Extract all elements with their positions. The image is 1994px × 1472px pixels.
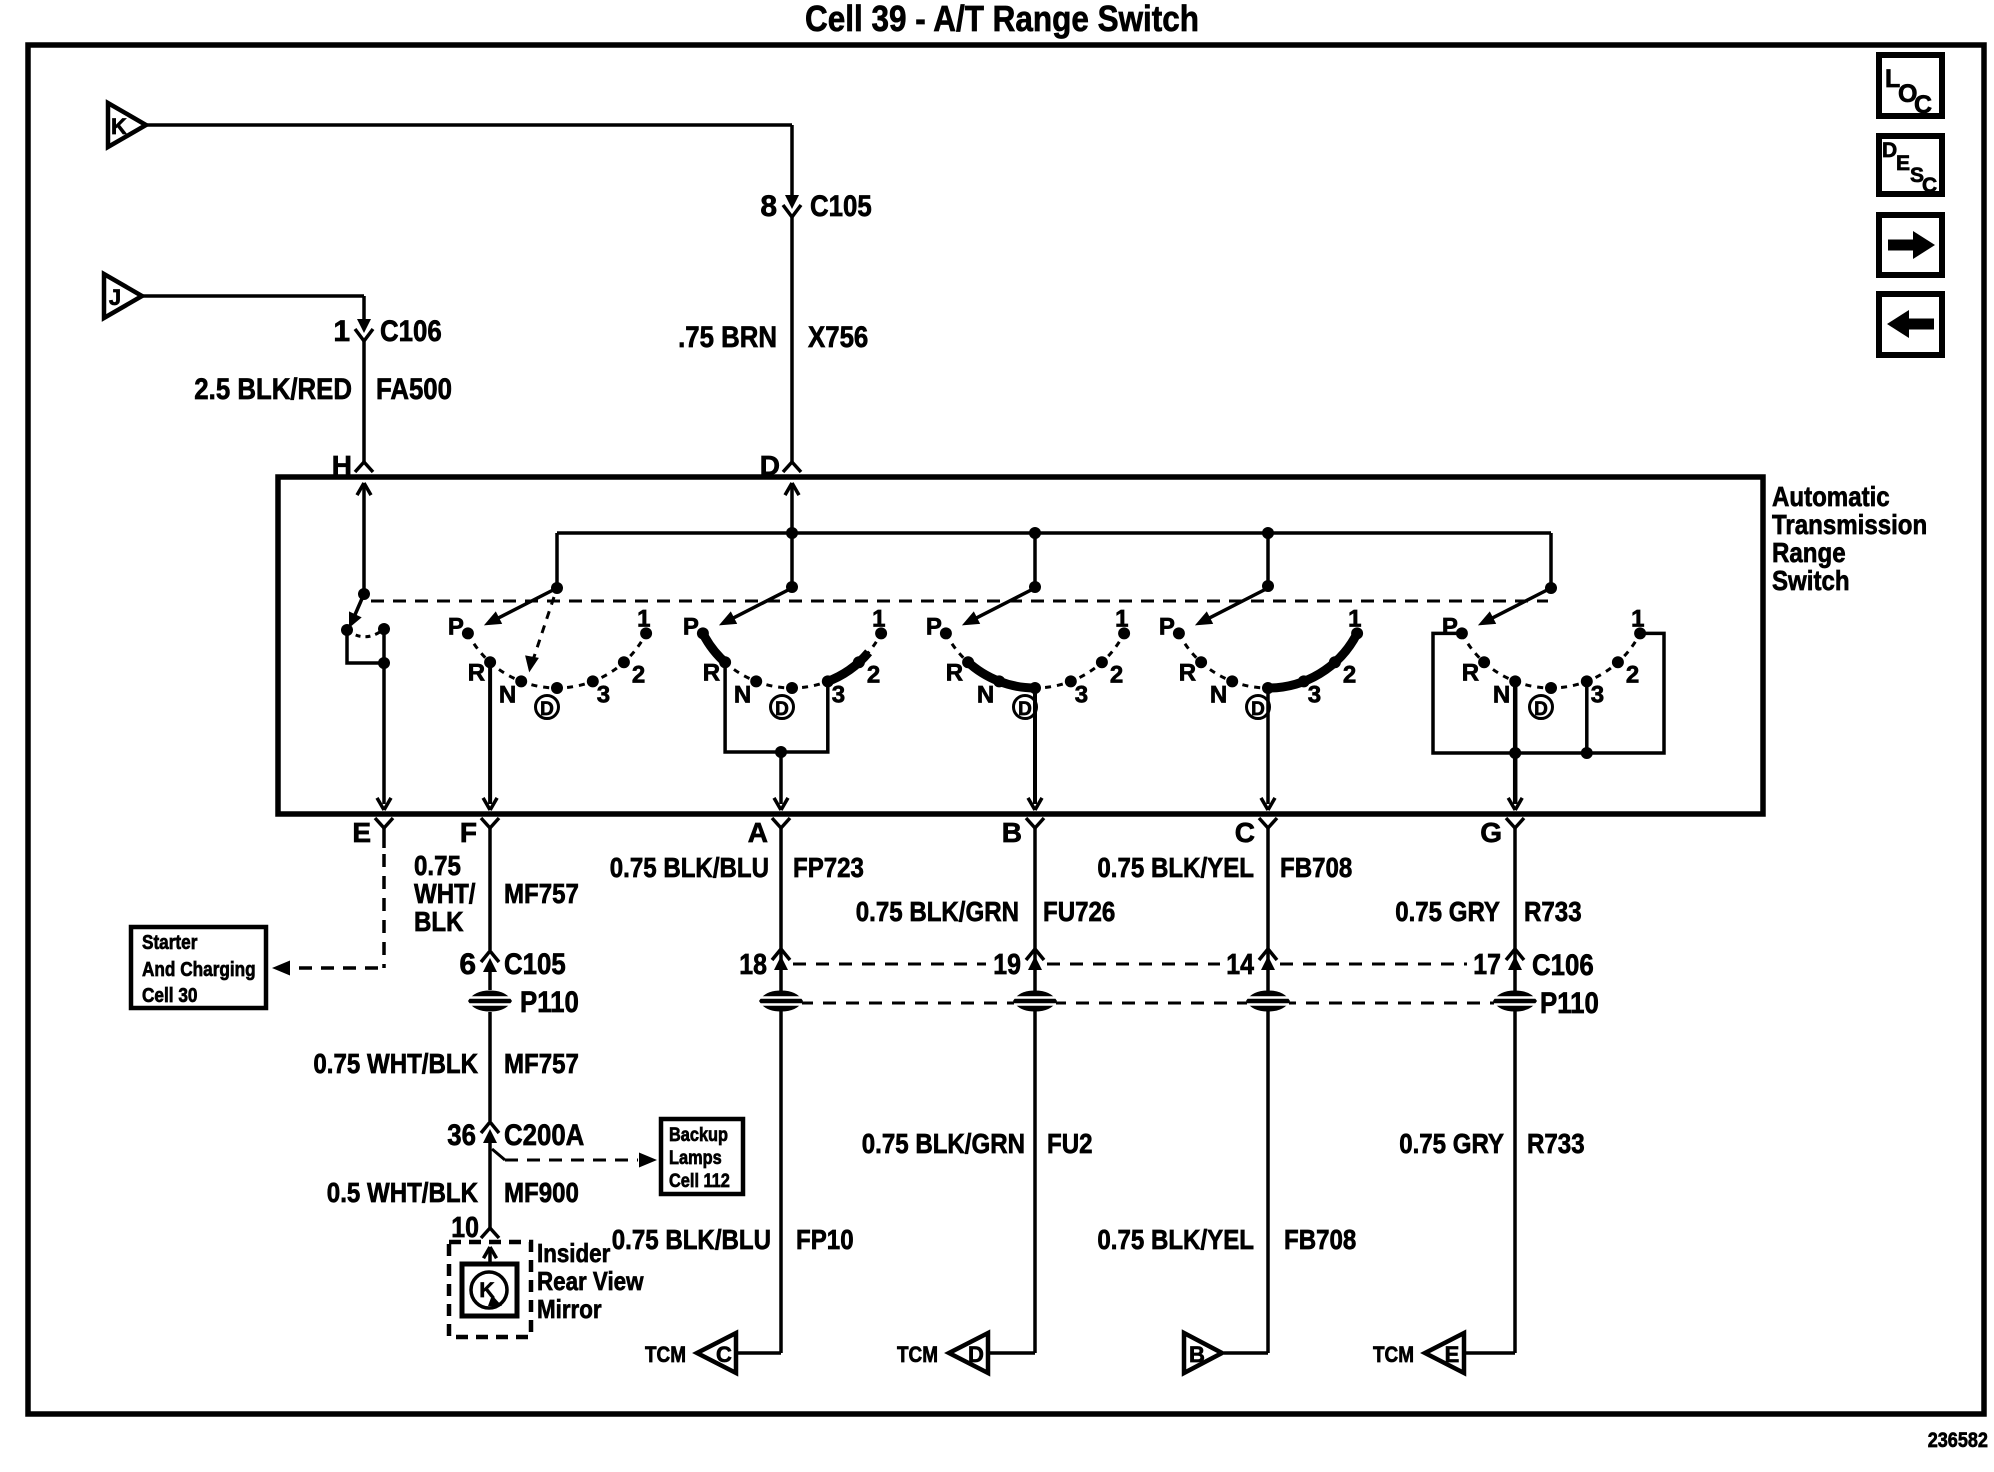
svg-text:B: B	[1002, 817, 1022, 848]
wire contact to pin E	[382, 629, 386, 804]
svg-text:D: D	[1882, 139, 1897, 162]
svg-text:BLK: BLK	[414, 906, 464, 937]
svg-text:0.75 GRY: 0.75 GRY	[1399, 1128, 1504, 1159]
rotary switch contact arc A	[703, 633, 881, 688]
svg-text:Automatic: Automatic	[1772, 481, 1890, 512]
svg-text:N: N	[977, 681, 994, 708]
splice P110 on B wire	[1013, 991, 1057, 1012]
pin D entry arrow inside box	[792, 483, 799, 495]
svg-text:G: G	[1480, 817, 1502, 848]
svg-text:2: 2	[1343, 661, 1356, 688]
connector C105 pin 8 (in-line, down)	[785, 195, 799, 209]
switch pole A pivot	[786, 581, 798, 593]
pin G fork symbol	[1506, 818, 1515, 828]
svg-text:C: C	[716, 1342, 732, 1367]
svg-text:A: A	[748, 817, 768, 848]
switch pole F pivot	[551, 582, 563, 594]
svg-text:MF757: MF757	[504, 878, 579, 909]
svg-text:0.75 GRY: 0.75 GRY	[1395, 896, 1500, 927]
connector C106 pin 17	[1506, 949, 1524, 960]
svg-text:C: C	[1235, 817, 1255, 848]
TCM connector C	[738, 1351, 781, 1355]
connector C106 pin 14	[1259, 949, 1277, 960]
inner common rail wire	[557, 531, 1551, 535]
connector triangle J	[104, 274, 142, 318]
mechanical linkage dashed line	[371, 600, 1548, 603]
svg-text:Lamps: Lamps	[669, 1148, 722, 1169]
svg-text:R: R	[1179, 659, 1196, 686]
svg-text:FU2: FU2	[1047, 1128, 1093, 1159]
switch pole G pivot	[1545, 582, 1557, 594]
mirror entry arrow	[490, 1247, 497, 1258]
svg-text:TCM: TCM	[897, 1342, 938, 1367]
connector triangle K	[108, 103, 146, 147]
pin E fork symbol	[375, 818, 384, 828]
svg-text:0.75 BLK/GRN: 0.75 BLK/GRN	[856, 896, 1019, 927]
switch wiper arrow	[724, 588, 792, 623]
switch wiper arrow	[1200, 588, 1268, 623]
svg-text:1: 1	[872, 605, 885, 632]
connector C106 pin 1 (in-line, down)	[357, 319, 371, 333]
svg-text:1: 1	[333, 315, 350, 348]
icon box LOC	[1879, 55, 1942, 116]
wire 0.75 WHT/BLK MF757 from pin F	[488, 828, 492, 950]
svg-text:FA500: FA500	[376, 373, 452, 406]
svg-text:P: P	[1442, 613, 1458, 640]
svg-text:TCM: TCM	[1373, 1342, 1414, 1367]
svg-text:P: P	[448, 613, 464, 640]
rotary switch contact arc B	[946, 633, 1124, 688]
wire pin A down to TCM C	[779, 828, 783, 1353]
rail junction node B	[1029, 527, 1041, 539]
svg-text:C: C	[1922, 174, 1937, 197]
wire pin G down to TCM E	[1513, 828, 1517, 1353]
svg-text:K: K	[111, 114, 127, 139]
svg-text:D: D	[1534, 699, 1548, 720]
wire pin B down to TCM D	[1033, 828, 1037, 1353]
TCM connector E	[1466, 1351, 1515, 1355]
dashed wiper alternate position arrow	[531, 597, 554, 665]
svg-text:1: 1	[1115, 605, 1128, 632]
wire pin C down to TCM B	[1266, 828, 1270, 1353]
svg-text:Mirror: Mirror	[537, 1294, 602, 1324]
icon box right arrow	[1879, 215, 1942, 275]
pin C fork symbol	[1259, 818, 1268, 828]
TCM connector D	[990, 1351, 1035, 1355]
svg-text:Rear View: Rear View	[537, 1266, 644, 1296]
switch pole C pivot	[1262, 580, 1274, 592]
svg-text:2: 2	[1110, 661, 1123, 688]
switch wiper arrow	[967, 588, 1035, 623]
Automatic Transmission Range Switch box	[278, 477, 1763, 814]
E switch bracket wire	[347, 630, 384, 663]
connector C106 pin 19	[1026, 949, 1044, 960]
switch wiper arrow	[489, 588, 557, 623]
connector C106 dashed gang line	[793, 963, 986, 966]
svg-text:3: 3	[832, 681, 845, 708]
svg-text:2: 2	[1626, 661, 1639, 688]
svg-text:MF900: MF900	[504, 1177, 579, 1208]
svg-text:2: 2	[867, 661, 880, 688]
wire .75 BRN X756 down to D	[790, 214, 794, 462]
wire from K to C105	[146, 123, 792, 127]
svg-text:3: 3	[1308, 681, 1321, 708]
E switch contacts	[341, 624, 353, 636]
rotary switch contact arc G	[1462, 633, 1640, 688]
svg-text:10: 10	[451, 1212, 479, 1244]
svg-text:TCM: TCM	[645, 1342, 686, 1367]
svg-text:Starter: Starter	[142, 932, 198, 954]
pin D fork symbol	[783, 462, 792, 472]
svg-text:And Charging: And Charging	[142, 959, 256, 981]
svg-text:1: 1	[1348, 605, 1361, 632]
svg-text:C106: C106	[1532, 949, 1594, 982]
Insider Rear View Mirror component box	[462, 1264, 517, 1316]
svg-text:2.5 BLK/RED: 2.5 BLK/RED	[194, 373, 352, 406]
svg-text:P110: P110	[1540, 987, 1599, 1020]
svg-text:2: 2	[632, 661, 645, 688]
svg-text:19: 19	[993, 949, 1021, 981]
G switch frame P-1 rectangle	[1433, 633, 1664, 753]
svg-text:D: D	[968, 1342, 984, 1367]
svg-text:0.75 BLK/YEL: 0.75 BLK/YEL	[1097, 1224, 1254, 1255]
wire N contact to pin G	[1513, 681, 1518, 804]
svg-text:Cell 30: Cell 30	[142, 985, 198, 1007]
svg-text:Cell 39 - A/T Range Switch: Cell 39 - A/T Range Switch	[805, 0, 1199, 39]
svg-text:N: N	[1493, 681, 1510, 708]
svg-text:Transmission: Transmission	[1772, 509, 1927, 540]
pin F fork symbol	[481, 818, 490, 828]
splice P110 on G wire	[1493, 991, 1537, 1012]
dashed reference arrow to Backup Lamps	[492, 1149, 505, 1160]
A switch frame R/3 to pin A	[725, 662, 828, 752]
svg-text:6: 6	[459, 948, 476, 981]
svg-text:Insider: Insider	[537, 1238, 610, 1268]
svg-text:D: D	[1018, 699, 1032, 720]
svg-text:0.75 BLK/YEL: 0.75 BLK/YEL	[1097, 852, 1254, 883]
svg-text:R: R	[1462, 659, 1479, 686]
wire 0.75 WHT/BLK MF757 to C200A	[488, 1012, 492, 1121]
connector B triangle	[1224, 1351, 1268, 1355]
svg-text:C105: C105	[504, 948, 566, 981]
svg-text:D: D	[775, 699, 789, 720]
svg-text:WHT/: WHT/	[414, 878, 476, 909]
splice P110 dashed gang line	[800, 1002, 1496, 1005]
icon box left arrow	[1879, 294, 1942, 355]
pin A fork symbol	[772, 818, 781, 828]
svg-text:F: F	[460, 817, 477, 848]
svg-text:FB708: FB708	[1284, 1224, 1356, 1255]
svg-text:Switch: Switch	[1772, 565, 1850, 596]
svg-text:0.75 BLK/BLU: 0.75 BLK/BLU	[610, 852, 769, 883]
svg-text:0.75: 0.75	[414, 850, 461, 881]
svg-text:FB708: FB708	[1280, 852, 1352, 883]
svg-text:X756: X756	[808, 321, 868, 354]
svg-text:MF757: MF757	[504, 1048, 579, 1079]
svg-text:3: 3	[1591, 681, 1604, 708]
svg-text:14: 14	[1226, 949, 1254, 981]
rail junction node C	[1262, 527, 1274, 539]
pin H fork symbol	[355, 462, 364, 472]
svg-text:P: P	[1159, 613, 1175, 640]
pin H entry arrow inside box	[364, 483, 371, 495]
svg-text:R733: R733	[1527, 1128, 1585, 1159]
svg-text:E: E	[1445, 1342, 1460, 1367]
splice P110 on A wire	[759, 991, 803, 1012]
svg-text:E: E	[352, 817, 371, 848]
wire D contact to pin B	[1033, 688, 1037, 804]
svg-text:D: D	[1251, 699, 1265, 720]
svg-text:J: J	[109, 285, 121, 310]
svg-text:B: B	[1189, 1342, 1205, 1367]
svg-text:18: 18	[739, 949, 767, 981]
svg-text:R: R	[946, 659, 963, 686]
svg-text:E: E	[1896, 152, 1910, 175]
svg-text:N: N	[1210, 681, 1227, 708]
svg-text:FP10: FP10	[796, 1224, 854, 1255]
svg-text:FU726: FU726	[1043, 896, 1115, 927]
svg-text:C106: C106	[380, 315, 442, 348]
dashed wire pin E to Starter And Charging	[382, 828, 386, 848]
rotary switch contact arc C	[1179, 633, 1357, 688]
svg-text:36: 36	[447, 1119, 476, 1152]
svg-text:0.75 BLK/GRN: 0.75 BLK/GRN	[862, 1128, 1025, 1159]
Starter And Charging Cell 30 box	[131, 927, 266, 1008]
connector C106 pin 18	[772, 949, 790, 960]
svg-text:P: P	[683, 613, 699, 640]
svg-text:Backup: Backup	[669, 1125, 728, 1146]
rotary switch contact arc F	[468, 633, 646, 688]
svg-text:Range: Range	[1772, 537, 1846, 568]
svg-text:17: 17	[1473, 949, 1501, 981]
svg-text:R733: R733	[1524, 896, 1582, 927]
svg-text:N: N	[734, 681, 751, 708]
svg-text:236582: 236582	[1928, 1429, 1988, 1452]
svg-text:1: 1	[637, 605, 650, 632]
svg-text:3: 3	[597, 681, 610, 708]
svg-text:3: 3	[1075, 681, 1088, 708]
Backup Lamps Cell 112 box	[661, 1119, 743, 1194]
wire D contact to pin C	[1266, 688, 1270, 804]
svg-text:8: 8	[760, 190, 777, 223]
switch pole B pivot	[1029, 581, 1041, 593]
svg-text:P: P	[926, 613, 942, 640]
svg-text:C200A: C200A	[504, 1119, 584, 1152]
svg-text:N: N	[499, 681, 516, 708]
wire to pin A	[779, 752, 783, 804]
icon box DESC	[1879, 136, 1942, 194]
switch pole H/E pivot	[358, 588, 370, 600]
wire 2.5 BLK/RED FA500 down to H	[362, 338, 366, 462]
svg-text:R: R	[703, 659, 720, 686]
svg-text:C: C	[1914, 91, 1932, 119]
G switch 3 contact drop wire	[1585, 681, 1589, 753]
Insider Rear View Mirror dashed outline	[449, 1242, 531, 1337]
svg-text:0.75 BLK/BLU: 0.75 BLK/BLU	[612, 1224, 771, 1255]
E switch wiper arrow	[354, 594, 364, 617]
svg-text:P110: P110	[520, 986, 579, 1019]
pin B fork symbol	[1026, 818, 1035, 828]
svg-text:.75 BRN: .75 BRN	[678, 321, 777, 354]
wire R contact to pin F	[488, 662, 492, 804]
svg-text:0.5 WHT/BLK: 0.5 WHT/BLK	[327, 1177, 478, 1208]
connector C200A pin 36 (in-line, up)	[481, 1122, 499, 1133]
connector C105 pin 6 (in-line, up)	[481, 951, 499, 962]
svg-text:0.75 WHT/BLK: 0.75 WHT/BLK	[313, 1048, 478, 1079]
splice P110 on F wire	[468, 991, 512, 1012]
svg-text:1: 1	[1631, 605, 1644, 632]
svg-text:C105: C105	[810, 190, 872, 223]
rail junction node at D wire	[786, 527, 798, 539]
svg-text:R: R	[468, 659, 485, 686]
svg-text:D: D	[540, 699, 554, 720]
svg-text:FP723: FP723	[793, 852, 864, 883]
svg-text:Cell 112: Cell 112	[669, 1171, 730, 1192]
splice P110 on C wire	[1246, 991, 1290, 1012]
switch wiper arrow	[1483, 588, 1551, 623]
wire from J to C106	[142, 294, 364, 298]
